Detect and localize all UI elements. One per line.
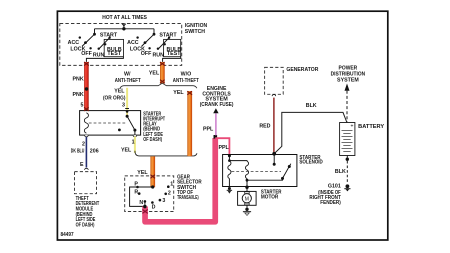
svg-text:TRANSAXLE): TRANSAXLE): [177, 195, 199, 201]
svg-text:1: 1: [132, 140, 135, 146]
svg-text:RED: RED: [259, 123, 270, 129]
svg-text:P: P: [134, 182, 138, 188]
svg-text:2: 2: [82, 141, 85, 147]
svg-text:5: 5: [80, 103, 83, 109]
svg-text:1: 1: [170, 182, 173, 188]
svg-text:PPL: PPL: [203, 126, 214, 132]
svg-text:3: 3: [162, 198, 165, 204]
svg-text:ANTI-THEFT: ANTI-THEFT: [173, 78, 200, 84]
svg-text:SYSTEM: SYSTEM: [337, 78, 359, 84]
svg-text:E: E: [80, 162, 84, 168]
svg-text:84497: 84497: [61, 232, 74, 238]
svg-text:2: 2: [168, 191, 171, 197]
svg-text:DK BLU: DK BLU: [71, 148, 85, 154]
svg-text:YEL: YEL: [149, 71, 160, 77]
svg-text:OF DASH): OF DASH): [76, 222, 95, 228]
svg-text:PPL: PPL: [218, 145, 229, 151]
svg-text:RUN: RUN: [152, 53, 164, 59]
svg-text:W/O: W/O: [181, 72, 192, 78]
svg-text:(OR ORG): (OR ORG): [103, 95, 126, 101]
svg-text:R: R: [134, 190, 138, 196]
svg-text:TEST: TEST: [107, 51, 121, 57]
svg-text:SWITCH: SWITCH: [185, 29, 205, 35]
svg-text:FENDER): FENDER): [320, 200, 341, 206]
svg-text:D: D: [152, 205, 156, 211]
svg-text:206: 206: [90, 148, 99, 154]
svg-text:3: 3: [122, 103, 125, 109]
svg-text:OFF: OFF: [141, 51, 152, 57]
svg-text:SOLENOID: SOLENOID: [299, 160, 323, 166]
svg-text:OFF: OFF: [81, 51, 92, 57]
svg-text:YEL: YEL: [121, 148, 132, 154]
svg-text:BATTERY: BATTERY: [358, 124, 384, 130]
svg-text:START: START: [159, 32, 177, 38]
svg-text:ACC: ACC: [68, 40, 80, 46]
svg-text:OF DASH): OF DASH): [143, 137, 162, 143]
svg-text:W/: W/: [124, 72, 131, 78]
svg-text:START: START: [100, 32, 118, 38]
svg-text:ACC: ACC: [127, 40, 139, 46]
svg-text:YEL: YEL: [114, 89, 125, 95]
svg-text:(CRANK FUSE): (CRANK FUSE): [200, 102, 234, 108]
svg-text:GENERATOR: GENERATOR: [286, 67, 318, 73]
svg-text:ANTI-THEFT: ANTI-THEFT: [115, 78, 142, 84]
svg-text:BLK: BLK: [335, 169, 346, 175]
svg-text:PNK: PNK: [73, 92, 84, 98]
svg-text:YEL: YEL: [137, 170, 148, 176]
svg-text:N: N: [139, 200, 143, 206]
svg-text:G101: G101: [328, 183, 341, 189]
svg-text:+: +: [351, 124, 354, 130]
svg-text:PNK: PNK: [73, 76, 84, 82]
svg-text:RUN: RUN: [93, 53, 105, 59]
svg-text:HOT AT ALL TIMES: HOT AT ALL TIMES: [102, 15, 147, 21]
svg-text:YEL: YEL: [173, 90, 184, 96]
svg-text:BLK: BLK: [306, 103, 317, 109]
svg-text:TEST: TEST: [167, 51, 181, 57]
svg-text:MOTOR: MOTOR: [261, 194, 279, 200]
svg-text:M: M: [245, 196, 249, 202]
